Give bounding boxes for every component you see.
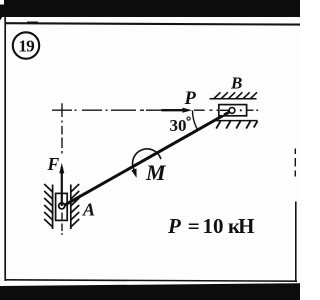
- support B bottom hatching: [216, 121, 257, 129]
- svg-text:B: B: [230, 73, 242, 92]
- 30 degree angle arc: [193, 110, 198, 129]
- svg-text:P: P: [184, 89, 197, 109]
- svg-text:30: 30: [170, 116, 187, 135]
- svg-text:M: M: [145, 160, 167, 185]
- force P arrow: [162, 109, 185, 111]
- support A left wall: [52, 185, 54, 230]
- centerline bits inside slider B: [220, 109, 229, 111]
- slider B: [219, 105, 247, 116]
- svg-text:19: 19: [18, 37, 34, 56]
- horizontal dash-dot centerline: [52, 109, 258, 111]
- vertical dash-dot centerline: [61, 103, 63, 235]
- rod end into pin B: [224, 111, 232, 116]
- rod AB: [62, 111, 232, 207]
- svg-text:F: F: [47, 154, 60, 174]
- moment M arrowhead: [131, 169, 136, 178]
- svg-text:A: A: [82, 200, 95, 220]
- support A right wall: [70, 185, 72, 230]
- pin A: [59, 203, 65, 209]
- support B top wall line: [210, 98, 257, 100]
- svg-text:P = 10 кН: P = 10 кН: [167, 214, 254, 238]
- support A right hatching: [71, 184, 79, 227]
- frame right border: [295, 202, 297, 283]
- support B bottom wall line: [212, 120, 258, 122]
- support A left hatching: [44, 184, 52, 227]
- figure number circle 19: [13, 32, 39, 58]
- moment M arc: [133, 149, 161, 170]
- right border dash-dot remnant: [294, 149, 296, 155]
- scan black bar bottom: [0, 283, 300, 300]
- frame bottom border: [5, 280, 297, 281]
- pin B: [229, 108, 235, 114]
- frame top border: [5, 23, 300, 24]
- force F arrow: [61, 167, 63, 206]
- support B top hatching: [214, 92, 258, 99]
- scan black bar top: [0, 0, 300, 17]
- frame left border: [4, 17, 6, 282]
- slider A: [56, 193, 68, 220]
